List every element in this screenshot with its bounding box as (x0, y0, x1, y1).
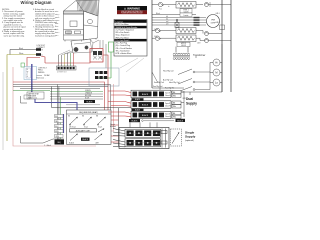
svg-text:Breaker: Breaker (110, 125, 116, 128)
terminal strip TB1 (57, 66, 77, 74)
wire green low (13, 90, 50, 92)
breaker top stubs (130, 122, 157, 127)
thermostat leader (36, 76, 47, 80)
low voltage label (37, 45, 46, 49)
bus right vertical B (230, 0, 232, 92)
svg-text:Blk: Blk (173, 103, 175, 105)
svg-text:HTR 5: HTR 5 (181, 43, 186, 45)
svg-text:Transformer: Transformer (193, 54, 206, 57)
svg-text:Blk: Blk (173, 92, 175, 94)
wire jumper (9, 50, 11, 55)
svg-text:BLACK: BLACK (142, 93, 149, 96)
aux contacts (70, 134, 102, 141)
svg-text:2000W Ht 4 Circuit Breaker: 2000W Ht 4 Circuit Breaker (116, 26, 138, 29)
svg-text:Seq 3: Seq 3 (98, 127, 102, 129)
svg-text:4 = Heater / Sequencer: 4 = Heater / Sequencer (116, 29, 135, 32)
wire bundle black A (13, 85, 111, 140)
heater element HTR2 (176, 28, 196, 34)
fuse FL2 (152, 28, 176, 32)
black label A (132, 98, 144, 101)
transformer drawing (3D) (71, 39, 99, 53)
breaker CB2 (196, 31, 222, 36)
svg-text:Black: Black (19, 48, 23, 50)
svg-text:BLACK: BLACK (132, 120, 139, 123)
relay right bus (181, 91, 186, 117)
svg-text:Heat Rly Coil: Heat Rly Coil (163, 70, 174, 73)
svg-text:C R W Y G O: C R W Y G O (57, 72, 67, 74)
black label B (132, 109, 144, 112)
svg-text:HTR = Heater Elem.: HTR = Heater Elem. (116, 52, 133, 55)
svg-text:Blk: Blk (173, 113, 175, 115)
wire green riser tall (98, 52, 111, 78)
control wires vertical (100, 40, 106, 68)
notes column 2 (33, 8, 57, 37)
wire pin labels (194, 17, 200, 26)
motor feed wires (152, 18, 206, 26)
wire red horizontal (13, 82, 105, 131)
fan relay switch row 1 (163, 69, 210, 75)
svg-text:Close H: Close H (165, 116, 170, 118)
wire limit line (152, 14, 196, 16)
wire green riser (60, 97, 62, 139)
limit label (156, 13, 192, 17)
label C black (44, 145, 51, 147)
wire red main riser (103, 55, 108, 131)
svg-text:M1: M1 (68, 116, 70, 118)
relay row 2 (sequencer heat 2) (131, 101, 181, 108)
wire right risers (190, 56, 196, 95)
svg-text:blk: blk (166, 16, 168, 18)
svg-text:POWER BEFORE SERVICING UNIT: POWER BEFORE SERVICING UNIT (121, 13, 143, 15)
svg-text:SEQUENCER (HEAT): SEQUENCER (HEAT) (79, 111, 98, 114)
field wiring boundary (pink) (13, 67, 96, 146)
sequencer left terminals (55, 115, 64, 138)
terminal C (36, 53, 44, 56)
wire red to relay box (45, 49, 103, 64)
junction stub (21, 95, 31, 103)
svg-text:IFM: IFM (211, 19, 215, 21)
svg-text:GREEN: GREEN (85, 90, 92, 92)
bus right vertical A (220, 0, 225, 92)
wire blue jumper (35, 99, 77, 111)
svg-text:Fan Rly Coil: Fan Rly Coil (153, 86, 163, 88)
wire HTR1 to bus (196, 4, 203, 6)
breaker module BR2 (125, 139, 161, 147)
svg-text:Close H: Close H (165, 106, 170, 108)
svg-text:BROWN: BROWN (85, 95, 92, 97)
labeled wires to sequencer (50, 90, 103, 100)
svg-text:240V: 240V (197, 43, 201, 45)
svg-text:same part number only.: same part number only. (4, 34, 25, 37)
sequencer contact labels (68, 116, 102, 129)
left black label box (55, 140, 65, 145)
control relay red box (90, 49, 103, 63)
wire into sequencer (66, 104, 100, 106)
wire main control line (52, 87, 134, 108)
green plug box (109, 42, 114, 52)
svg-text:panel -: panel - (55, 17, 60, 19)
breaker module BR1 (125, 129, 161, 137)
right connector strip (118, 108, 120, 146)
thermostat cable (blue) (31, 64, 33, 92)
breaker CB1 (205, 2, 223, 7)
label boxes above breakers (110, 119, 185, 128)
red stubs (111, 120, 119, 142)
svg-text:BLUE: BLUE (85, 98, 89, 100)
svg-text:IFM = Fan Motor: IFM = Fan Motor (116, 36, 130, 39)
svg-text:marked on rating plate.: marked on rating plate. (35, 34, 56, 37)
label BLACK on blue wire (84, 100, 95, 103)
heater element HTR1 (176, 2, 196, 9)
svg-text:CB = Circuit Breaker: CB = Circuit Breaker (116, 47, 133, 50)
wire bottom C (21, 138, 65, 143)
svg-text:FL1: FL1 (159, 9, 162, 11)
wire white 24v (7, 52, 36, 55)
fan relay switch row 3 (165, 87, 210, 92)
fuse FL1 (152, 2, 176, 6)
leader lines to plug (120, 58, 144, 72)
svg-text:(S) = Control Plug: (S) = Control Plug (116, 44, 130, 47)
svg-text:blu: blu (166, 19, 168, 21)
svg-text:LIMIT: LIMIT (95, 143, 99, 145)
svg-text:BLACK: BLACK (142, 114, 149, 117)
svg-text:M2: M2 (82, 116, 84, 118)
svg-text:HTR 1: HTR 1 (183, 10, 188, 12)
furnace cabinet (64, 0, 100, 42)
heater element HTR3 (176, 35, 196, 42)
svg-text:base -: base - (55, 32, 60, 34)
svg-text:(optional): (optional) (185, 139, 194, 142)
breaker right lugs (161, 129, 167, 148)
svg-text:4800W: 4800W (181, 45, 187, 47)
relay feed wires red (108, 91, 131, 117)
svg-text:BLACK: BLACK (177, 119, 184, 122)
aux black label (81, 138, 90, 142)
svg-text:rack -: rack - (55, 29, 59, 31)
svg-text:White: White (19, 52, 23, 55)
svg-text:Open S: Open S (165, 93, 170, 95)
svg-text:GR-1: GR-1 (216, 13, 220, 15)
svg-text:pan -: pan - (55, 35, 59, 37)
plug terminal block (89, 68, 119, 86)
breaker bank outer box (119, 128, 169, 149)
svg-text:AUXILIARY LIMIT: AUXILIARY LIMIT (76, 129, 91, 132)
motor ground label (216, 5, 232, 25)
svg-text:IFS = Fan Switch: IFS = Fan Switch (116, 31, 130, 34)
svg-text:⚠ WARNING: ⚠ WARNING (124, 7, 140, 11)
dotted terminal row (145, 120, 174, 121)
svg-text:GR-2: GR-2 (216, 22, 220, 24)
svg-text:IFM 1 Fan Motor: IFM 1 Fan Motor (116, 23, 130, 26)
svg-text:Close H: Close H (165, 95, 170, 97)
HTR1 label (180, 9, 192, 14)
svg-text:Wiring Diagram: Wiring Diagram (21, 0, 52, 5)
unit enclosure box (160, 44, 222, 92)
wire blue drop (63, 114, 65, 133)
terminal G green (21, 63, 25, 67)
fan relay switch row 2 (163, 79, 210, 85)
aux text (69, 142, 99, 145)
relay row 3 (sequencer heat 3) (131, 111, 181, 118)
svg-text:Limits: Limits (184, 14, 189, 17)
transformer lead wires down (59, 50, 74, 66)
relay row 1 (sequencer heat 1) (131, 90, 181, 97)
title: Wiring Diagram (21, 0, 52, 5)
sequencer header (67, 111, 112, 114)
wire red to thermostat (27, 58, 40, 67)
auxiliary limit bar (70, 128, 105, 132)
svg-text:24V Seq 1: 24V Seq 1 (69, 127, 76, 129)
sequencer outer box (67, 110, 112, 144)
notes column 1 (2, 9, 26, 37)
sequencer contacts (69, 117, 105, 125)
svg-text:24 VAC: 24 VAC (44, 74, 50, 77)
svg-text:wire -: wire - (55, 11, 59, 13)
svg-text:BLACK: BLACK (82, 138, 88, 141)
fan relay coil label (152, 72, 184, 88)
svg-text:Seq 2: Seq 2 (84, 127, 88, 129)
svg-text:C - Black: C - Black (44, 145, 51, 147)
blower motor M (207, 15, 220, 28)
svg-text:M: M (215, 71, 217, 75)
single supply dashed kit (171, 129, 182, 146)
cabinet leader labels (55, 11, 60, 37)
transformer label (193, 54, 206, 57)
svg-text:Black: Black (156, 13, 160, 15)
warning label (117, 6, 147, 15)
motor IFM speed circles (210, 59, 222, 90)
svg-text:LS = Limit Switch: LS = Limit Switch (116, 39, 130, 42)
svg-text:BLACK: BLACK (87, 100, 94, 103)
svg-text:Supply: Supply (185, 135, 196, 139)
single supply label (185, 131, 196, 143)
svg-text:Supply: Supply (186, 101, 197, 105)
breaker feed diagonals (113, 129, 125, 147)
svg-text:Open S: Open S (165, 103, 170, 105)
svg-text:cover -: cover - (55, 20, 60, 22)
wire ground green-yellow (6, 55, 8, 142)
run capacitor (175, 19, 179, 28)
breaker CB3 (196, 38, 231, 42)
thermostat labels (38, 68, 50, 78)
ladder tiny labels (154, 5, 201, 45)
thermostat box (24, 67, 37, 80)
svg-text:Fan Rly Coil: Fan Rly Coil (154, 82, 164, 84)
wire red R lead (41, 56, 45, 63)
svg-text:door -: door - (55, 23, 60, 25)
bus L1 left vertical (151, 0, 153, 88)
HTR3 label (177, 42, 190, 47)
svg-text:Heat Rly Coil: Heat Rly Coil (169, 81, 180, 84)
svg-text:M3: M3 (96, 116, 98, 118)
wire black 24v (10, 48, 36, 50)
transformer TR primary coil (173, 47, 190, 60)
dual supply label (186, 97, 197, 105)
svg-text:Hi: Hi (215, 61, 218, 65)
svg-text:WIRING: WIRING (38, 72, 45, 74)
fuse FL3 (152, 36, 176, 40)
border left gray (2, 72, 4, 150)
thermostat note box (27, 92, 44, 100)
terminal R (36, 48, 44, 51)
field wiring boundary right (pink) (109, 84, 114, 131)
legend box (114, 20, 147, 57)
svg-text:Open S: Open S (165, 114, 170, 116)
svg-text:BLACK: BLACK (142, 104, 149, 107)
svg-text:Legend: Legend (116, 21, 124, 23)
